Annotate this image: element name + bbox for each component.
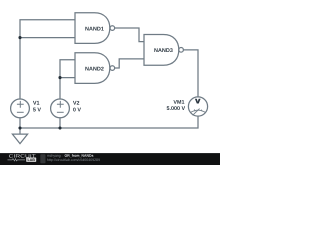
nand gate NAND1 — [75, 13, 115, 44]
voltmeter V glyph — [195, 99, 201, 104]
wire node A branch to NAND1 input B — [20, 37, 75, 39]
voltage source V2 — [51, 99, 70, 118]
voltage source V1 — [11, 99, 30, 118]
label NAND1 — [85, 27, 88, 31]
junction ground-V2 — [58, 126, 61, 129]
footer url line — [47, 158, 48, 161]
junction ground-V1 — [18, 126, 21, 129]
footer logo wire doodle — [8, 159, 26, 161]
wire NAND1 output to NAND3 input A — [115, 28, 144, 42]
footer credit line — [47, 155, 49, 157]
ground — [12, 128, 27, 144]
label V2 — [73, 101, 77, 105]
wire V2 bottom stub — [59, 118, 61, 128]
wire V2 to NAND2 input A — [60, 60, 75, 99]
value 5 V — [33, 108, 36, 112]
nand gate NAND2 — [75, 53, 115, 84]
value 5.000 V — [167, 106, 170, 110]
label V1 — [33, 101, 37, 105]
junction node A — [18, 36, 21, 39]
wire V1 bottom stub — [19, 118, 21, 128]
wire NAND2 output to NAND3 input B — [115, 59, 144, 68]
footer logo LAB box — [26, 158, 36, 162]
value 0 V — [73, 108, 76, 112]
wire VM1 to ground rail — [20, 116, 198, 128]
wire V1 to NAND1 input A — [20, 20, 75, 99]
voltmeter VM1 — [188, 97, 207, 116]
label VM1 — [173, 100, 177, 104]
wire node B branch to NAND2 input B — [60, 77, 75, 79]
nand gate NAND3 — [144, 35, 183, 66]
footer bar — [0, 153, 220, 165]
label NAND2 — [85, 67, 88, 71]
junction node B — [58, 76, 61, 79]
label NAND3 — [154, 48, 157, 52]
wire NAND3 output to VM1 — [183, 50, 198, 97]
footer logo CIRCUIT — [9, 154, 13, 157]
footer divider icon — [40, 154, 45, 163]
